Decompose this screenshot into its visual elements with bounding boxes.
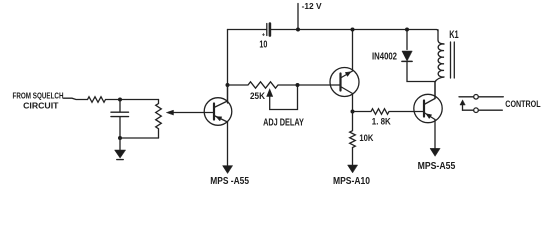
svg-text:CONTROL: CONTROL	[505, 99, 540, 110]
svg-text:K1: K1	[449, 29, 459, 41]
svg-text:-12 V: -12 V	[302, 1, 322, 11]
armature arrow	[462, 105, 464, 111]
wire -12V supply lead	[297, 4, 299, 30]
svg-text:MPS-A55: MPS-A55	[418, 161, 456, 172]
arrow Q1 emitter terminator	[223, 166, 233, 174]
node emitter junction	[351, 110, 355, 114]
resistor R2 25K	[228, 82, 331, 88]
capacitor C2	[119, 100, 121, 113]
capacitor C1 10uF plates	[266, 24, 268, 36]
node wiper junction	[296, 83, 300, 87]
node capacitor top junction	[118, 98, 122, 102]
wire Q1 collector	[227, 85, 229, 101]
wire top rail left segment	[228, 29, 267, 31]
arrow Q3 emitter terminator	[430, 148, 440, 156]
transistor Q1 MPS-A55	[204, 98, 232, 126]
arrow 10K terminator	[348, 165, 358, 173]
wire Q2 emitter down	[352, 94, 354, 112]
svg-text:MPS -A55: MPS -A55	[210, 176, 249, 187]
node -12V junction	[296, 28, 300, 32]
svg-text:ADJ DELAY: ADJ DELAY	[263, 118, 304, 129]
relay K1 coil	[438, 30, 444, 44]
node 25K line left junction	[226, 83, 230, 87]
svg-text:MPS-A10: MPS-A10	[333, 176, 370, 187]
potentiometer wiper ADJ DELAY	[270, 85, 298, 110]
transistor Q3 MPS-A55	[412, 94, 442, 122]
wire Q3 emitter down	[434, 120, 436, 149]
node Q2 collector junction	[351, 28, 355, 32]
svg-text:10K: 10K	[359, 133, 373, 144]
svg-text:1. 8K: 1. 8K	[372, 117, 391, 128]
svg-text:FROM SQUELCH: FROM SQUELCH	[13, 90, 64, 100]
transistor Q2 MPS-A10	[330, 68, 359, 97]
resistor R4 1.8K	[353, 109, 413, 115]
svg-text:CIRCUIT: CIRCUIT	[23, 101, 59, 111]
svg-text:10: 10	[259, 39, 267, 50]
ground symbol	[119, 138, 121, 150]
svg-text:+: +	[262, 33, 266, 39]
resistor R1 input	[88, 97, 159, 103]
wire Q2 collector to rail	[352, 30, 354, 72]
wire Q3 collector up to relay	[434, 82, 436, 99]
wiper arrow to Q1 base	[173, 112, 205, 114]
wire bottom to potentiometer	[120, 137, 159, 139]
wire from squelch input lead	[64, 98, 88, 99]
svg-text:IN4002: IN4002	[372, 51, 397, 62]
relay K1 core	[450, 42, 452, 78]
wire left vertical rail	[227, 30, 229, 104]
svg-text:25K: 25K	[250, 91, 265, 102]
potentiometer R3 vertical	[156, 100, 162, 139]
wire top rail right segment	[271, 30, 438, 32]
wire Q1 emitter down	[227, 122, 229, 166]
node capacitor bottom junction	[118, 136, 122, 140]
relay contacts	[459, 96, 503, 98]
diode D1 IN4002	[406, 30, 408, 50]
resistor R5 10K vertical	[350, 112, 356, 166]
